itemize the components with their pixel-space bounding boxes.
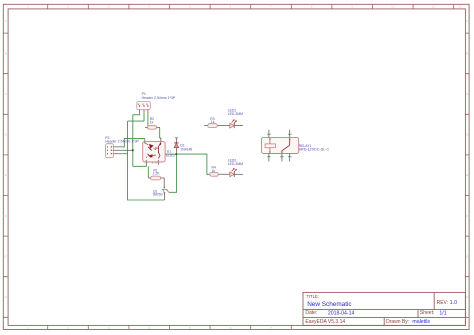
svg-text:H: H [466,295,468,299]
relay pins [269,130,290,162]
svg-text:Header 2.54mm 1*3P: Header 2.54mm 1*3P [142,96,176,100]
svg-text:LED-3MM: LED-3MM [228,112,243,116]
svg-text:1k: 1k [150,120,154,124]
wire P1 pin1 to vertical rail B [133,113,140,115]
wire rail A (ground net to Q1 emitter) [128,121,165,200]
svg-text:S8050: S8050 [153,193,163,197]
svg-text:LED-3MM: LED-3MM [228,162,243,166]
svg-text:Header 2.54mm 1*3P: Header 2.54mm 1*3P [105,140,139,144]
resistor R4 [208,172,230,176]
wire P2 pin1 to U1 pin1 [122,139,145,147]
relay RELAY1 SRD-12VDC-SL-C [262,130,299,162]
wire tap down to R1 left [147,166,149,178]
svg-text:1N4148: 1N4148 [180,148,192,152]
wire P1 pin2 to vertical rail A [128,113,145,121]
junction dot P2.2 / rail B [132,149,134,151]
LED LED1 [230,119,243,128]
wire Q1 collector up to D1 junction [169,154,177,192]
svg-text:F: F [466,214,468,218]
svg-text:1k: 1k [212,169,216,173]
connector P2 Header 2.54mm 1*3P [106,144,123,158]
svg-text:maletils: maletils [412,319,430,325]
LED LED2 [230,168,243,177]
svg-text:10: 10 [391,5,395,9]
relay coil [265,144,275,148]
wire rail B (P1.1 / P2.2 / U1.2 net) [132,115,134,167]
svg-text:Sheet:: Sheet: [420,310,434,316]
svg-text:Date:: Date: [305,310,317,316]
diode D1 1N4148 [174,138,178,155]
svg-text:B: B [5,51,7,55]
svg-text:New Schematic: New Schematic [307,301,352,308]
optocoupler U1 [143,138,165,165]
svg-text:H: H [5,295,7,299]
svg-text:11: 11 [432,5,435,9]
wire node to R4 [176,154,208,174]
svg-text:E: E [5,173,7,177]
resistor R2 [145,126,160,129]
resistor R1 [148,176,164,180]
svg-text:2018-04-14: 2018-04-14 [328,310,355,316]
svg-text:A: A [466,19,468,23]
wire P2 pin2 to rail B [122,149,133,151]
svg-text:2.2K: 2.2K [153,172,161,176]
resistor R3 [204,124,230,128]
wire U1 pin2 down-left to rail B [133,164,147,166]
svg-text:B: B [466,51,468,55]
wire P1 pin3 to R2 [147,113,149,126]
svg-text:Drawn By:: Drawn By: [386,319,409,325]
svg-text:1.0: 1.0 [450,300,457,306]
svg-text:1k: 1k [211,120,215,124]
svg-text:TITLE:: TITLE: [306,294,319,299]
svg-text:REV:: REV: [437,300,448,306]
TITLE BLOCK [303,292,465,325]
svg-text:SRD-12VDC-SL-C: SRD-12VDC-SL-C [299,147,330,151]
svg-text:EL817: EL817 [166,153,176,157]
svg-text:A: A [5,19,7,23]
svg-text:E: E [466,173,468,177]
wire U1 emitter node to D1 junction [165,153,176,155]
svg-text:1/1: 1/1 [439,310,446,316]
svg-text:EasyEDA V5.3.14: EasyEDA V5.3.14 [305,319,345,325]
svg-text:F: F [5,214,7,218]
relay switch [282,138,290,153]
transistor Q1 S8050 [162,178,169,200]
junction dot D1 / collector node [175,153,177,155]
wire P2 pin3 to rail A [122,153,127,155]
svg-text:12: 12 [458,5,462,9]
connector P1 Header 2.54mm 1*3P [137,101,151,113]
wire R2 to U1 pin4 [160,127,161,139]
